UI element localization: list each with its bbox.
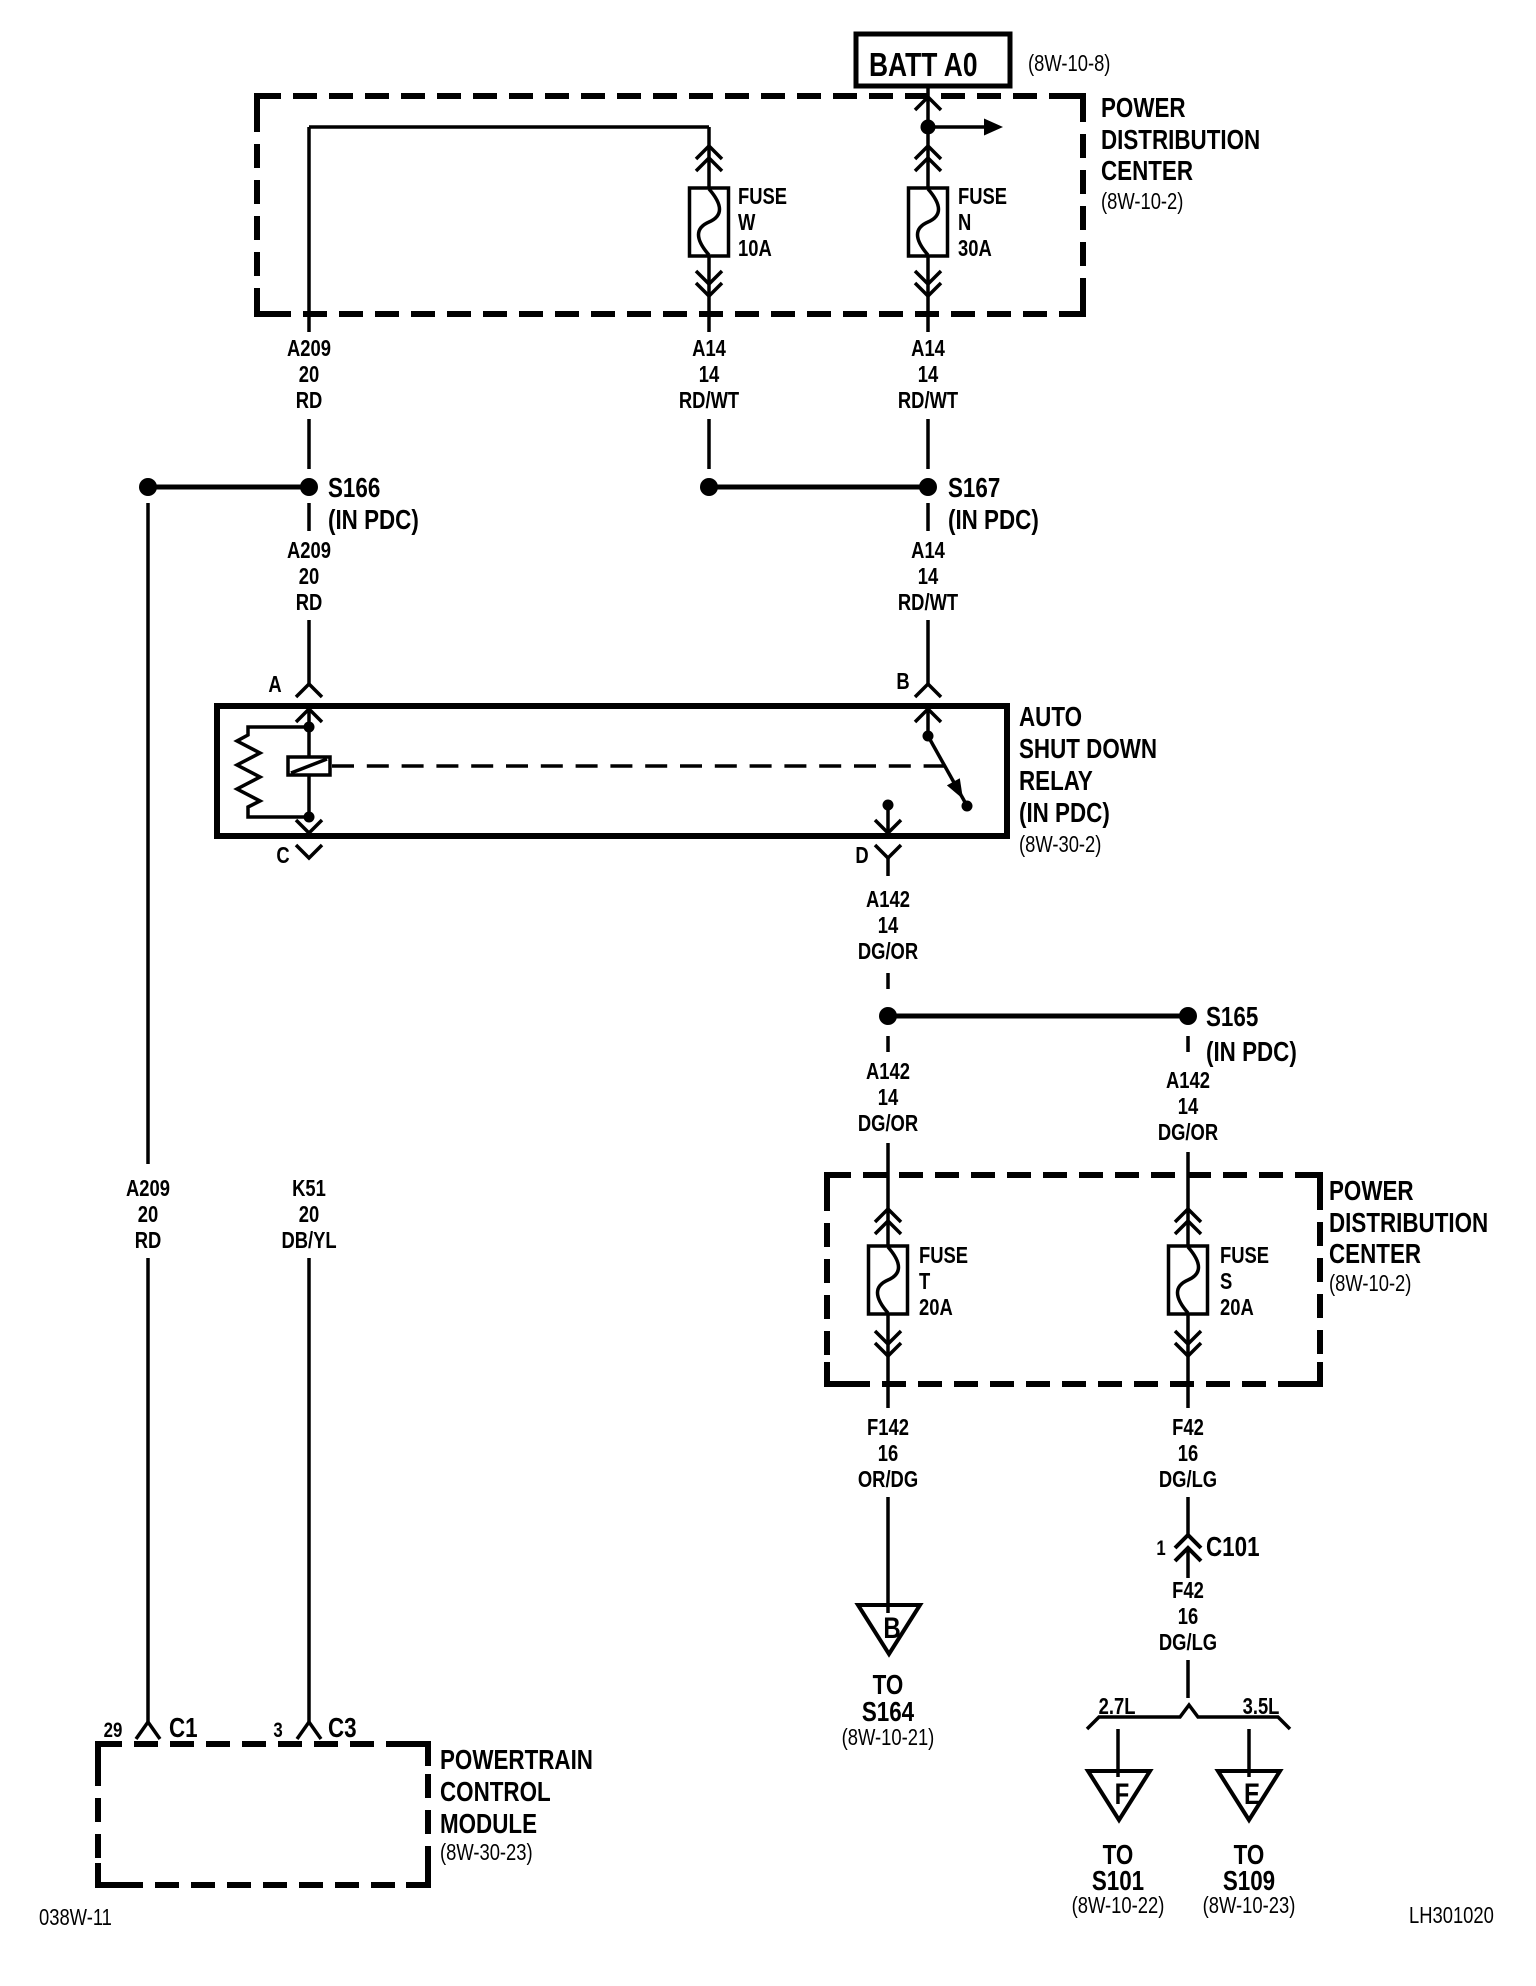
wire pin B to switch xyxy=(926,709,930,736)
fuse N input chevrons xyxy=(915,146,941,159)
svg-text:MODULE: MODULE xyxy=(440,1809,537,1840)
svg-text:T: T xyxy=(919,1269,930,1294)
svg-text:A209: A209 xyxy=(126,1176,170,1201)
svg-text:A209: A209 xyxy=(287,538,331,563)
svg-text:(IN PDC): (IN PDC) xyxy=(328,505,419,536)
svg-text:RD/WT: RD/WT xyxy=(679,388,740,413)
svg-text:DISTRIBUTION: DISTRIBUTION xyxy=(1101,125,1260,156)
svg-text:2.7L: 2.7L xyxy=(1099,1694,1136,1719)
switch arm with arrowhead xyxy=(928,736,966,804)
svg-text:A142: A142 xyxy=(1166,1068,1210,1093)
svg-text:AUTO: AUTO xyxy=(1019,702,1082,733)
switch common node xyxy=(923,731,934,742)
off-page connector triangle E xyxy=(1218,1771,1280,1820)
label TO S164 (8W-10-21) xyxy=(842,1670,935,1751)
svg-text:DG/OR: DG/OR xyxy=(858,1111,918,1136)
dashed wire piece below S165 left xyxy=(886,1036,890,1052)
pin C chevrons xyxy=(296,820,322,833)
pin D chevrons xyxy=(875,820,901,833)
svg-text:A14: A14 xyxy=(911,336,945,361)
wire pin A to coil xyxy=(307,709,311,757)
svg-text:OR/DG: OR/DG xyxy=(858,1467,918,1492)
node BATT A0 xyxy=(856,34,1010,86)
junction node on A0 feed xyxy=(921,120,936,135)
wire S166 to relay pin A xyxy=(307,620,311,684)
svg-text:K51: K51 xyxy=(292,1176,326,1201)
wire arrow to other circuits xyxy=(928,125,984,129)
wire A209 from S166 to PCM (left drop) xyxy=(146,503,150,1164)
wire label A142 14 DG/OR (below relay) xyxy=(858,887,918,964)
wire fuse W out through PDC boundary xyxy=(707,256,711,332)
wire fuse S out of PDC2 xyxy=(1186,1314,1190,1408)
svg-text:A142: A142 xyxy=(866,887,910,912)
svg-text:S167: S167 xyxy=(948,473,1000,504)
svg-text:20A: 20A xyxy=(919,1295,953,1320)
connector C101 pin 1 xyxy=(1156,1532,1259,1563)
splice S165 (IN PDC) xyxy=(879,1002,1297,1068)
wire label A209 20 RD (left drop) xyxy=(126,1176,170,1253)
wire K51 to PCM pin 3 xyxy=(307,1258,311,1722)
wire label A142 14 DG/OR (right of PDC2) xyxy=(1158,1068,1218,1145)
svg-text:A14: A14 xyxy=(692,336,726,361)
svg-text:(8W-30-23): (8W-30-23) xyxy=(440,1840,533,1865)
svg-text:F: F xyxy=(1115,1776,1130,1810)
wire to engine split xyxy=(1186,1660,1190,1698)
wire stub below S167 xyxy=(926,503,930,531)
svg-text:16: 16 xyxy=(1178,1604,1198,1629)
svg-text:S166: S166 xyxy=(328,473,380,504)
svg-text:A142: A142 xyxy=(866,1059,910,1084)
svg-text:DG/LG: DG/LG xyxy=(1159,1467,1217,1492)
off-page connector triangle B xyxy=(858,1605,920,1654)
svg-text:3: 3 xyxy=(273,1719,282,1742)
wire coil bottom xyxy=(307,775,311,817)
svg-text:POWER: POWER xyxy=(1101,93,1186,124)
svg-text:F142: F142 xyxy=(867,1415,909,1440)
wire fuse T out of PDC2 xyxy=(886,1314,890,1408)
svg-text:3.5L: 3.5L xyxy=(1243,1694,1280,1719)
power distribution center box (lower, dashed) xyxy=(827,1175,1320,1384)
svg-text:DISTRIBUTION: DISTRIBUTION xyxy=(1329,1208,1488,1239)
svg-text:16: 16 xyxy=(1178,1441,1198,1466)
fuse S output chevrons xyxy=(1175,1331,1201,1344)
wire label A14 14 RD/WT (below S167) xyxy=(898,538,959,615)
wire label A14 14 RD/WT (fuse N) xyxy=(898,336,959,413)
wire label F142 16 OR/DG xyxy=(858,1415,918,1492)
svg-text:FUSE: FUSE xyxy=(738,184,787,209)
svg-text:S109: S109 xyxy=(1223,1866,1275,1897)
svg-text:S101: S101 xyxy=(1092,1866,1144,1897)
svg-text:D: D xyxy=(855,843,868,868)
svg-text:RD/WT: RD/WT xyxy=(898,590,959,615)
svg-text:A: A xyxy=(268,672,281,697)
wire BATT A0 down into PDC xyxy=(926,86,930,188)
fuse W output chevrons xyxy=(696,271,722,284)
svg-text:S: S xyxy=(1220,1269,1232,1294)
svg-text:20A: 20A xyxy=(1220,1295,1254,1320)
svg-text:038W-11: 038W-11 xyxy=(39,1905,112,1930)
wire label K51 20 DB/YL xyxy=(281,1176,336,1253)
PCM pin 3 connector C3 xyxy=(273,1713,356,1744)
label TO S109 (8W-10-23) xyxy=(1203,1840,1296,1919)
svg-text:B: B xyxy=(883,1610,900,1644)
svg-text:S164: S164 xyxy=(862,1697,914,1728)
svg-text:14: 14 xyxy=(878,913,899,938)
svg-text:DG/OR: DG/OR xyxy=(1158,1120,1218,1145)
resistor (coil suppression) xyxy=(237,727,309,817)
wire to connector C101 xyxy=(1186,1497,1190,1534)
wire S167 to relay pin B xyxy=(926,620,930,684)
svg-text:1: 1 xyxy=(1156,1537,1166,1560)
wire A209 to S166 xyxy=(307,419,311,469)
svg-text:29: 29 xyxy=(104,1719,123,1742)
label AUTO SHUT DOWN RELAY (IN PDC) (8W-30-2) xyxy=(1019,702,1157,858)
off-page connector triangle F xyxy=(1088,1771,1150,1820)
svg-text:LH301020: LH301020 xyxy=(1409,1903,1494,1928)
engine variant split bracket xyxy=(1087,1705,1290,1729)
svg-text:14: 14 xyxy=(918,564,939,589)
fuse S 20A xyxy=(1169,1246,1208,1314)
svg-text:(8W-10-21): (8W-10-21) xyxy=(842,1725,935,1750)
fuse W input chevrons xyxy=(696,146,722,159)
svg-text:30A: 30A xyxy=(958,236,992,261)
wire 2.7L branch xyxy=(1116,1729,1120,1777)
svg-text:20: 20 xyxy=(138,1202,158,1227)
fuse T output chevrons xyxy=(875,1331,901,1344)
svg-text:14: 14 xyxy=(699,362,720,387)
svg-text:B: B xyxy=(896,669,909,694)
node coil top xyxy=(304,722,315,733)
wire 3.5L branch xyxy=(1247,1729,1251,1777)
svg-text:N: N xyxy=(958,210,971,235)
svg-text:(8W-10-8): (8W-10-8) xyxy=(1028,51,1110,76)
svg-text:A209: A209 xyxy=(287,336,331,361)
dashed wire piece to S165 xyxy=(886,973,890,989)
splice S167 (IN PDC) xyxy=(700,473,1039,536)
svg-text:F42: F42 xyxy=(1172,1578,1204,1603)
svg-text:RELAY: RELAY xyxy=(1019,766,1093,797)
fuse N 30A xyxy=(909,188,948,256)
wire to off-page B xyxy=(886,1497,890,1613)
wire stub below S166 xyxy=(307,503,311,531)
wire fuse N out through PDC boundary xyxy=(926,256,930,332)
fuse N output chevrons xyxy=(915,271,941,284)
svg-text:RD/WT: RD/WT xyxy=(898,388,959,413)
svg-text:FUSE: FUSE xyxy=(1220,1243,1269,1268)
fuse T input chevrons xyxy=(875,1209,901,1222)
svg-text:10A: 10A xyxy=(738,236,772,261)
auto shut down relay box xyxy=(217,706,1007,836)
svg-text:F42: F42 xyxy=(1172,1415,1204,1440)
wire label A209 20 RD (below S166) xyxy=(287,538,331,615)
svg-text:A14: A14 xyxy=(911,538,945,563)
svg-text:20: 20 xyxy=(299,1202,319,1227)
svg-text:14: 14 xyxy=(1178,1094,1199,1119)
wire label F42 16 DG/LG (upper) xyxy=(1159,1415,1217,1492)
svg-text:(8W-30-2): (8W-30-2) xyxy=(1019,832,1101,857)
svg-text:20: 20 xyxy=(299,362,319,387)
svg-text:DG/LG: DG/LG xyxy=(1159,1630,1217,1655)
svg-text:S165: S165 xyxy=(1206,1002,1258,1033)
svg-text:(IN PDC): (IN PDC) xyxy=(948,505,1039,536)
svg-text:RD: RD xyxy=(296,388,323,413)
pin D node xyxy=(883,800,894,811)
wire A14 to S167 left xyxy=(707,419,711,469)
svg-text:20: 20 xyxy=(299,564,319,589)
label POWER DISTRIBUTION CENTER (8W-10-2) lower xyxy=(1329,1176,1488,1297)
svg-text:C1: C1 xyxy=(169,1713,198,1744)
dashed actuation line coil to switch xyxy=(332,764,944,768)
switch contact node xyxy=(962,801,973,812)
wire label A209 20 RD (upper) xyxy=(287,336,331,413)
svg-text:E: E xyxy=(1244,1776,1260,1810)
svg-text:(8W-10-22): (8W-10-22) xyxy=(1072,1893,1165,1918)
svg-text:SHUT DOWN: SHUT DOWN xyxy=(1019,734,1157,765)
svg-text:14: 14 xyxy=(878,1085,899,1110)
label POWERTRAIN CONTROL MODULE (8W-30-23) xyxy=(440,1745,593,1866)
wire relay D down xyxy=(886,858,890,876)
connector chevron at PDC boundary xyxy=(915,97,941,110)
svg-text:BATT A0: BATT A0 xyxy=(869,47,977,83)
wire A209 to PCM pin 29 xyxy=(146,1258,150,1722)
svg-text:DG/OR: DG/OR xyxy=(858,939,918,964)
wire label A14 14 RD/WT (fuse W) xyxy=(679,336,740,413)
svg-text:(8W-10-2): (8W-10-2) xyxy=(1101,189,1183,214)
power distribution center box (top, dashed) xyxy=(257,96,1083,314)
svg-text:CENTER: CENTER xyxy=(1329,1239,1421,1270)
svg-text:16: 16 xyxy=(878,1441,898,1466)
svg-text:CONTROL: CONTROL xyxy=(440,1777,551,1808)
powertrain control module box (dashed) xyxy=(98,1744,428,1885)
svg-text:C3: C3 xyxy=(328,1713,357,1744)
wire down to fuse W xyxy=(707,127,711,188)
relay coil xyxy=(288,757,330,775)
wire A209 branch across PDC xyxy=(309,125,709,129)
wire pin D xyxy=(886,805,890,833)
svg-text:RD: RD xyxy=(135,1228,162,1253)
svg-text:POWER: POWER xyxy=(1329,1176,1414,1207)
fuse W 10A xyxy=(690,188,729,256)
svg-text:POWERTRAIN: POWERTRAIN xyxy=(440,1745,593,1776)
wire into PDC2 left xyxy=(886,1143,890,1246)
fuse S input chevrons xyxy=(1175,1209,1201,1222)
svg-text:FUSE: FUSE xyxy=(958,184,1007,209)
svg-text:RD: RD xyxy=(296,590,323,615)
label TO S101 (8W-10-22) xyxy=(1072,1840,1165,1919)
wire A14 to S167 right xyxy=(926,419,930,469)
wire stub below S165 right xyxy=(1186,1036,1190,1052)
wire label F42 16 DG/LG (lower) xyxy=(1159,1578,1217,1655)
svg-text:14: 14 xyxy=(918,362,939,387)
svg-text:FUSE: FUSE xyxy=(919,1243,968,1268)
wire into PDC2 right xyxy=(1186,1152,1190,1246)
svg-text:W: W xyxy=(738,210,756,235)
splice S166 (IN PDC) xyxy=(139,473,419,536)
svg-text:C101: C101 xyxy=(1206,1532,1260,1563)
svg-text:C: C xyxy=(276,843,289,868)
svg-text:CENTER: CENTER xyxy=(1101,156,1193,187)
wire below C101 xyxy=(1186,1549,1190,1578)
svg-text:(IN PDC): (IN PDC) xyxy=(1206,1037,1297,1068)
PCM pin 29 connector C1 xyxy=(104,1713,198,1744)
svg-text:(8W-10-2): (8W-10-2) xyxy=(1329,1271,1411,1296)
svg-text:(8W-10-23): (8W-10-23) xyxy=(1203,1893,1296,1918)
node coil bottom xyxy=(304,812,315,823)
svg-text:DB/YL: DB/YL xyxy=(281,1228,336,1253)
label POWER DISTRIBUTION CENTER (8W-10-2) top xyxy=(1101,93,1260,215)
wire label A142 14 DG/OR (left of PDC2) xyxy=(858,1059,918,1136)
fuse T 20A xyxy=(869,1246,908,1314)
svg-text:(IN PDC): (IN PDC) xyxy=(1019,798,1110,829)
